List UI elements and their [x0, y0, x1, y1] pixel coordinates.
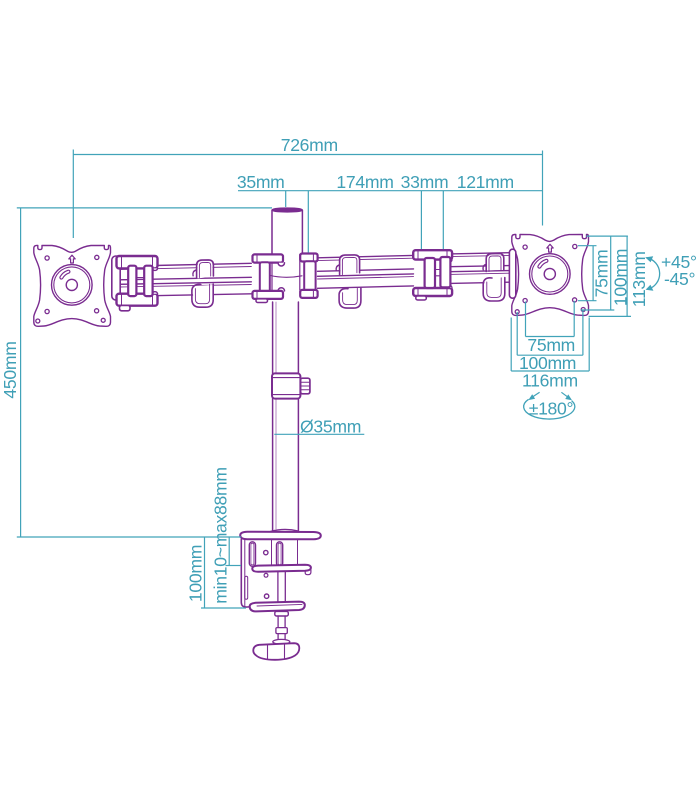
right VESA plate — [512, 235, 589, 316]
right plate corner holes — [515, 310, 519, 314]
right plate up arrow — [547, 244, 553, 252]
right plate center hole — [544, 268, 555, 279]
desk clamp: screw collar — [276, 628, 287, 634]
dim minmax line — [228, 537, 230, 566]
center hub: pole edges between flanges — [272, 254, 300, 291]
cable clip A (upper tube, left arm) — [198, 261, 213, 278]
cable hook D (lower tube, right arm) — [340, 289, 360, 308]
desk clamp: knob stem disc — [273, 639, 290, 644]
desk clamp: back fold edges — [241, 539, 254, 607]
center hub: bottom-right flange — [300, 290, 317, 298]
arm upper tube (left segment) — [119, 263, 251, 280]
dim 450mm bottom tick — [17, 536, 241, 538]
svg-text:35mm: 35mm — [237, 172, 285, 192]
cable hook F (lower tube, near right plate) — [484, 279, 504, 301]
center hub: top-left flange — [253, 254, 284, 262]
rotation arc 180 ellipse — [524, 399, 575, 419]
left plate center hole — [66, 279, 77, 290]
svg-text:75mm: 75mm — [592, 250, 612, 298]
svg-text:121mm: 121mm — [457, 172, 514, 192]
cable clip C (upper tube, right arm) — [341, 256, 360, 274]
right plate big ring — [530, 254, 571, 295]
center hub: tab below — [256, 299, 268, 303]
arm upper tube (right segment) — [318, 255, 414, 271]
dim 450mm top tick — [17, 207, 272, 209]
left plate big ring — [52, 265, 93, 306]
arm lower tube (left segment) — [119, 282, 251, 297]
svg-text:100mm: 100mm — [186, 545, 206, 602]
desk clamp: hole lower — [264, 594, 268, 598]
left joint: bottom flange — [117, 294, 158, 306]
dim tick joint left — [420, 191, 422, 249]
cable hook B (lower tube, left arm) — [193, 285, 213, 307]
desk clamp: slots upper — [249, 542, 255, 567]
left plate corner holes — [36, 319, 40, 323]
left plate slot arc — [61, 272, 68, 278]
dim 726mm right tick — [542, 151, 544, 226]
svg-text:33mm: 33mm — [401, 172, 449, 192]
arrowhead -45 bottom — [646, 285, 654, 291]
svg-text:75mm: 75mm — [527, 335, 575, 355]
arm lower tube (right segment) — [318, 274, 414, 288]
desk clamp: knob bowl — [253, 643, 299, 660]
right plate VESA holes — [523, 245, 527, 249]
leader line Ø35mm — [274, 433, 364, 435]
pole lower section — [272, 302, 274, 531]
svg-text:174mm: 174mm — [336, 172, 393, 192]
dim right 75mm vertical — [592, 246, 594, 301]
left joint: top flange — [117, 256, 158, 268]
desk clamp: screw rod lower — [278, 616, 285, 642]
dim bottom 75mm — [525, 302, 527, 337]
left plate VESA holes — [45, 256, 49, 260]
dim 726mm line — [73, 154, 542, 156]
pole height ring collar — [300, 378, 310, 394]
center hub: right column — [304, 261, 315, 291]
arrowhead 180 right — [565, 394, 572, 400]
center hub: bolt bump top — [278, 263, 284, 266]
rotation 180 lines — [530, 392, 539, 398]
svg-text:±180°: ±180° — [529, 399, 574, 419]
rotation arc +45/-45 — [647, 258, 660, 290]
left VESA plate — [34, 245, 111, 326]
desk clamp: bracket tube lines — [272, 539, 298, 564]
center hub: left column — [260, 262, 270, 292]
svg-text:726mm: 726mm — [281, 135, 338, 155]
arrowhead 180 left — [528, 394, 535, 400]
dim 726mm left tick — [72, 150, 74, 239]
desk clamp: screw rod upper — [278, 572, 285, 602]
left plate up arrow — [69, 255, 75, 263]
dim row2 line — [238, 190, 543, 192]
desk clamp: top plate — [271, 529, 299, 531]
left plate hinge — [112, 256, 120, 300]
right joint: clamp verticals — [425, 258, 435, 288]
dim tick joint right — [442, 191, 444, 249]
cable clip E (upper tube, near right plate) — [487, 255, 503, 270]
arm upper tube (plate segment) — [450, 253, 510, 267]
right joint: tab below — [416, 296, 427, 300]
dim 450mm vertical — [20, 208, 22, 537]
arrowhead +45 top — [645, 256, 653, 262]
left joint: clamp verticals — [128, 266, 136, 296]
desk clamp: hole upper — [264, 550, 268, 554]
desk clamp: bottom jaw — [250, 602, 305, 612]
dim right 113mm vertical — [626, 236, 628, 316]
right joint: top flange — [413, 250, 452, 259]
svg-text:-45°: -45° — [664, 269, 695, 289]
desk clamp: middle plate — [252, 565, 311, 572]
center hub: bottom-left flange — [278, 288, 284, 291]
pole seam in hub — [270, 275, 302, 277]
left joint: tab below — [120, 305, 131, 310]
center hub: top-right flange — [300, 254, 317, 262]
dim clamp 100mm bottom tick — [201, 607, 246, 609]
arm lower tube (plate segment) — [450, 271, 510, 284]
left joint: bolt bumps — [152, 268, 157, 270]
pole upper section — [271, 210, 273, 254]
desk clamp: left slot lower — [245, 576, 248, 599]
dim right 100mm vertical — [610, 236, 612, 310]
right plate hinge — [509, 249, 515, 298]
dim tick hub right — [307, 191, 309, 253]
svg-text:113mm: 113mm — [629, 251, 649, 307]
desk clamp: middle plate hole — [264, 573, 268, 577]
svg-text:116mm: 116mm — [522, 370, 578, 390]
dim tick pole left — [285, 191, 287, 207]
desk clamp: nut under jaw — [275, 611, 289, 616]
dim bottom 100mm — [516, 312, 518, 355]
right plate slot arc — [539, 261, 546, 267]
svg-text:min10~max88mm: min10~max88mm — [211, 467, 231, 603]
svg-text:450mm: 450mm — [0, 341, 20, 398]
dim clamp 100mm line — [204, 537, 206, 608]
svg-text:Ø35mm: Ø35mm — [300, 417, 361, 437]
svg-text:100mm: 100mm — [611, 249, 631, 306]
pole top cap — [272, 208, 302, 212]
right joint: bolt bumps — [447, 260, 452, 263]
right joint: bottom flange — [413, 288, 452, 296]
dim minmax bottom tick — [226, 565, 242, 567]
dim bottom 116mm — [510, 318, 512, 372]
